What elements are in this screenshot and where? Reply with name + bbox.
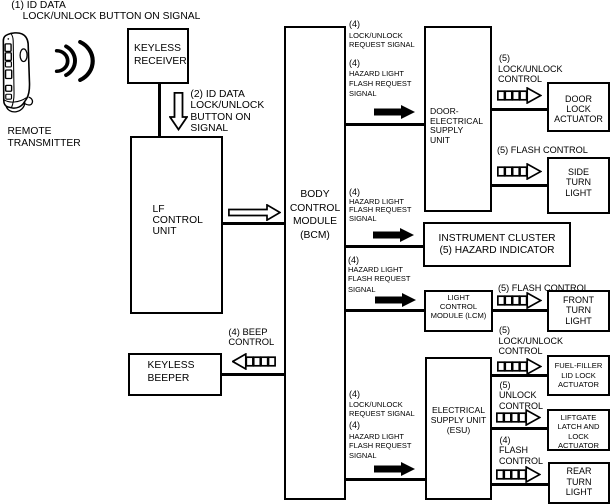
wire keyless receiver to LF control unit: [158, 84, 161, 136]
text DOOR LOCK ACTUATOR: [547, 94, 610, 125]
wire LF control unit to BCM: [223, 222, 284, 225]
box KEYLESS RECEIVER: [127, 28, 189, 84]
label (4) a: [349, 20, 360, 29]
label HAZARD LIGHT FLASH REQUEST SIGNAL d1: [348, 266, 403, 274]
label FLASH CONTROL j1: [499, 446, 528, 455]
arrow BCM to instrument cluster: [373, 228, 414, 242]
text SIDE TURN LIGHT: [547, 167, 610, 198]
text ELECTRICAL SUPPLY UNIT (ESU): [425, 405, 492, 435]
label HAZARD LIGHT FLASH REQUEST SIGNAL f3: [349, 452, 377, 460]
text INSTRUMENT CLUSTER (5) HAZARD INDICATOR: [423, 233, 571, 258]
label (2) ID DATA LOCK/UNLOCK BUTTON ON SIGNAL: [190, 89, 264, 135]
box LIGHT CONTROL MODULE (LCM): [424, 290, 493, 332]
text FRONT TURN LIGHT: [547, 295, 610, 327]
label (5) FLASH CONTROL side: [497, 146, 588, 155]
label LOCK/UNLOCK CONTROL h1: [499, 337, 564, 346]
label LOCK/UNLOCK REQUEST SIGNAL a2: [349, 41, 415, 49]
arrow lock/unlock control to door lock actuator: [497, 87, 542, 104]
label (1) ID DATA: [11, 1, 66, 11]
radio wave arcs from transmitter: [51, 40, 101, 82]
text KEYLESS BEEPER: [148, 359, 195, 386]
box DOOR-ELECTRICAL SUPPLY UNIT: [424, 26, 492, 212]
box LF CONTROL UNIT: [130, 136, 223, 314]
label HAZARD LIGHT FLASH REQUEST SIGNAL b3: [349, 90, 377, 98]
text LIFTGATE LATCH AND LOCK ACTUATOR: [547, 413, 610, 451]
arrow lock/unlock control to fuel-filler lid lock actuator: [497, 358, 542, 375]
arrow BCM to electrical supply unit: [374, 462, 415, 476]
wire ESU to liftgate latch and lock actuator: [492, 427, 547, 430]
wire LCM to front turn light: [493, 309, 548, 312]
label (4) d: [348, 256, 359, 265]
label UNLOCK CONTROL i2: [499, 402, 543, 411]
wire BCM to door-electrical supply unit: [346, 123, 424, 126]
label (5) i: [500, 381, 511, 390]
text LF CONTROL UNIT: [153, 204, 203, 237]
wire door unit to door lock actuator: [492, 108, 547, 111]
box REAR TURN LIGHT: [548, 462, 610, 504]
arrow BCM to door-electrical supply unit: [374, 105, 415, 119]
label (5) g: [499, 54, 510, 63]
label LOCK/UNLOCK REQUEST SIGNAL e2: [349, 410, 415, 418]
label FLASH CONTROL j2: [499, 457, 543, 466]
arrow beep control from BCM to keyless beeper: [232, 353, 276, 370]
wire keyless beeper to BCM: [220, 373, 284, 376]
label HAZARD LIGHT FLASH REQUEST SIGNAL f2: [349, 442, 412, 450]
text REAR TURN LIGHT: [548, 466, 610, 498]
label HAZARD LIGHT FLASH REQUEST SIGNAL d2: [348, 275, 411, 283]
box ELECTRICAL SUPPLY UNIT (ESU): [425, 357, 492, 500]
box KEYLESS BEEPER: [128, 353, 222, 396]
arrow flash control to side turn light: [497, 163, 542, 180]
label HAZARD LIGHT FLASH REQUEST SIGNAL c2: [349, 206, 412, 214]
label HAZARD LIGHT FLASH REQUEST SIGNAL c1: [349, 198, 404, 206]
label HAZARD LIGHT FLASH REQUEST SIGNAL d3: [348, 286, 376, 294]
label HAZARD LIGHT FLASH REQUEST SIGNAL c3: [349, 215, 377, 223]
text KEYLESS RECEIVER: [134, 42, 187, 68]
label UNLOCK CONTROL i1: [499, 391, 537, 400]
label LOCK/UNLOCK CONTROL g1: [498, 65, 563, 74]
box FUEL-FILLER LID LOCK ACTUATOR: [547, 355, 610, 396]
box SIDE TURN LIGHT: [547, 157, 610, 214]
label LOCK/UNLOCK CONTROL g2: [498, 75, 542, 84]
arrow flash control to rear turn light: [496, 466, 541, 483]
text DOOR-ELECTRICAL SUPPLY UNIT: [430, 107, 483, 147]
wire BCM to instrument cluster: [346, 245, 423, 248]
label (4) c: [349, 188, 360, 197]
box LIFTGATE LATCH AND LOCK ACTUATOR: [547, 409, 610, 451]
label (4) j: [500, 436, 511, 445]
text BODY CONTROL MODULE (BCM): [284, 188, 346, 243]
label (4) e: [349, 390, 360, 399]
label LOCK/UNLOCK BUTTON ON SIGNAL: [23, 12, 201, 22]
label LOCK/UNLOCK REQUEST SIGNAL a1: [349, 32, 403, 40]
label HAZARD LIGHT FLASH REQUEST SIGNAL f1: [349, 433, 404, 441]
remote transmitter key fob: [1, 32, 36, 113]
box BODY CONTROL MODULE (BCM): [284, 26, 346, 500]
box DOOR LOCK ACTUATOR: [547, 82, 610, 132]
text FUEL-FILLER LID LOCK ACTUATOR: [547, 361, 610, 389]
text LIGHT CONTROL MODULE (LCM): [424, 293, 493, 321]
box INSTRUMENT CLUSTER: [423, 222, 571, 267]
label (4) f: [349, 421, 360, 430]
label (5) FLASH CONTROL front: [498, 284, 589, 293]
arrow flash control to front turn light: [497, 292, 542, 309]
label LOCK/UNLOCK REQUEST SIGNAL e1: [349, 401, 403, 409]
label HAZARD LIGHT FLASH REQUEST SIGNAL b1: [349, 70, 404, 78]
wire BCM to light control module: [346, 309, 424, 312]
wire ESU to rear turn light: [492, 483, 548, 486]
label REMOTE TRANSMITTER: [8, 126, 81, 150]
arrow unlock control to liftgate latch and lock actuator: [496, 409, 541, 426]
label LOCK/UNLOCK CONTROL h2: [499, 347, 543, 356]
box FRONT TURN LIGHT: [547, 290, 610, 332]
wire BCM to electrical supply unit: [346, 478, 425, 481]
label HAZARD LIGHT FLASH REQUEST SIGNAL b2: [349, 80, 412, 88]
arrow LF control unit to BCM: [228, 204, 281, 221]
label (4) BEEP CONTROL: [228, 327, 274, 348]
arrow BCM to light control module: [375, 293, 416, 307]
wire ESU to fuel-filler lid lock actuator: [492, 374, 547, 377]
wire door unit to side turn light: [492, 184, 548, 187]
label (5) h: [499, 326, 510, 335]
label (4) b: [349, 59, 360, 68]
arrow keyless receiver to LF control unit (ID data signal): [169, 92, 188, 131]
